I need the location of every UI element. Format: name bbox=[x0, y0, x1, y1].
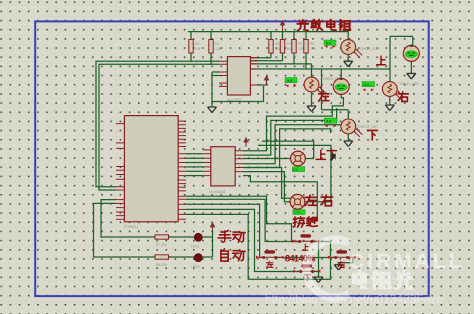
wire MCU to button down left bbox=[186, 209, 300, 271]
svg-text:R6: R6 bbox=[310, 42, 314, 46]
svg-text:TORCH_LDR: TORCH_LDR bbox=[358, 47, 379, 51]
LDR right brightness box bbox=[362, 82, 375, 92]
svg-text:AT89C51: AT89C51 bbox=[124, 225, 138, 229]
label shoudong (manual) bbox=[218, 231, 245, 243]
ground LDR down bbox=[344, 141, 353, 147]
svg-text:R3: R3 bbox=[275, 42, 279, 46]
wire motor B top bbox=[340, 69, 342, 78]
wire to LDR-down top bbox=[322, 69, 349, 119]
wire ADC to R4 bbox=[251, 60, 283, 62]
resistor R2 bbox=[209, 40, 221, 54]
svg-text:R7 220: R7 220 bbox=[156, 243, 167, 247]
svg-text:TORCH_LDR: TORCH_LDR bbox=[398, 82, 419, 86]
ground stem LDR-up bbox=[347, 54, 349, 61]
resistor R4 bbox=[280, 40, 292, 54]
resistor R8 bbox=[155, 255, 169, 267]
LDR up bbox=[341, 40, 379, 58]
svg-text:0.0: 0.0 bbox=[295, 211, 300, 215]
wire LDR-up top bbox=[347, 32, 349, 40]
svg-text:9.0: 9.0 bbox=[326, 119, 331, 123]
button up bbox=[292, 234, 319, 243]
wire MCU left to resistor row 2 bbox=[94, 203, 156, 257]
wire ADC to R3 bbox=[251, 57, 271, 59]
resistor R3 bbox=[269, 40, 281, 54]
sheet border bbox=[35, 21, 429, 296]
ground stem LDR-down bbox=[347, 134, 349, 141]
label up (LDR) bbox=[377, 56, 386, 65]
wire LED1 to VCC node bbox=[202, 236, 212, 238]
svg-text:10k: 10k bbox=[195, 47, 201, 51]
button right bbox=[328, 250, 355, 259]
motor C (up-down stepper) bbox=[291, 151, 306, 172]
wire R8 to LED2 bbox=[169, 256, 195, 258]
bus wire i bbox=[243, 125, 345, 164]
ADC U2 bbox=[219, 57, 258, 102]
driver U3 bbox=[203, 147, 243, 194]
label down (LDR) bbox=[367, 130, 377, 139]
resistor R6 bbox=[304, 40, 316, 54]
wire ADC left lower pins to ground bbox=[212, 72, 219, 107]
label right (LDR) bbox=[398, 92, 408, 102]
svg-text:9.0: 9.0 bbox=[287, 79, 292, 83]
svg-text:R2: R2 bbox=[215, 42, 219, 46]
wire MCU to button right bbox=[186, 196, 298, 241]
button label up bbox=[302, 244, 308, 250]
svg-text:LED2: LED2 bbox=[191, 265, 200, 269]
power arrow ADC bbox=[264, 75, 270, 85]
ground stem LDR-left bbox=[311, 92, 313, 106]
svg-text:R1: R1 bbox=[195, 42, 199, 46]
svg-text:9.0: 9.0 bbox=[326, 41, 331, 45]
wire LDR-right / motor A bbox=[390, 36, 413, 81]
wire button right wrap bbox=[339, 258, 353, 265]
button label down bbox=[304, 275, 310, 281]
watermark logo arc bbox=[306, 240, 349, 298]
motor D (left-right stepper) bbox=[290, 194, 305, 214]
svg-text:ADC0832: ADC0832 bbox=[227, 98, 242, 102]
svg-text:R5: R5 bbox=[298, 42, 302, 46]
svg-text:0.0: 0.0 bbox=[293, 168, 298, 172]
wire driver to motor C left bbox=[243, 158, 291, 160]
label anjian (buttons) bbox=[293, 217, 317, 227]
wire ADC to LDR-right top bbox=[251, 68, 390, 70]
ground LDR up bbox=[344, 61, 353, 66]
LDR left bbox=[304, 77, 342, 95]
resistor R1 bbox=[189, 40, 201, 54]
wire ADC vcc stub bbox=[258, 78, 267, 85]
ground button right bbox=[334, 265, 343, 270]
wire MCU to button up left bbox=[186, 199, 299, 241]
label zidong (auto) bbox=[221, 249, 245, 261]
label guangminR (photoresistor) bbox=[297, 20, 350, 31]
LDR up brightness box bbox=[324, 40, 336, 48]
LDR down brightness box bbox=[324, 118, 337, 127]
wire R7 to LED1 bbox=[169, 236, 195, 238]
button label left bbox=[266, 261, 273, 267]
wire MCU left to resistor row 1 bbox=[101, 200, 155, 237]
button left bbox=[256, 250, 283, 259]
motor B middle bbox=[333, 77, 349, 94]
wire ADC to LDR-left top bbox=[251, 64, 312, 77]
svg-text:9.0: 9.0 bbox=[364, 83, 369, 87]
wire driver to motor D left bbox=[243, 168, 290, 199]
ground LDR left bbox=[307, 106, 316, 112]
svg-text:10k: 10k bbox=[310, 47, 316, 51]
resistor R5 bbox=[292, 40, 304, 54]
motor A top right bbox=[403, 44, 419, 61]
wire VCC vertical at LEDs bbox=[212, 231, 214, 258]
wire button common vertical bbox=[277, 242, 336, 278]
label up-down (motor C) bbox=[316, 150, 336, 159]
svg-text:R8 220: R8 220 bbox=[156, 263, 167, 267]
power arrow top rail bbox=[280, 20, 286, 32]
svg-text:http://blog.csdn.net/u013423Fa: http://blog.csdn.net/u013423Faye bbox=[265, 292, 443, 306]
label left (LDR) bbox=[319, 92, 329, 101]
ground motor A bbox=[407, 73, 416, 79]
button down bbox=[293, 264, 320, 273]
ground stem LDR-right bbox=[389, 96, 391, 105]
ground LDR right bbox=[385, 105, 394, 111]
wire MCU wrap to button up right bbox=[186, 214, 331, 279]
ground stem motor A bbox=[410, 61, 412, 73]
LDR down bbox=[341, 119, 378, 137]
wire loop motor D right side bbox=[243, 176, 317, 220]
wires MCU to driver bbox=[186, 154, 203, 176]
watermark chinese bbox=[354, 272, 412, 289]
resistor top leads bbox=[191, 32, 306, 40]
bus wire j bbox=[243, 129, 331, 168]
bus wire b bbox=[243, 108, 337, 155]
wire motor C right loop bbox=[262, 141, 314, 158]
power arrow driver bbox=[243, 137, 249, 147]
LED D2 bbox=[191, 254, 202, 269]
wire LED2 to VCC node bbox=[202, 256, 212, 258]
MCU U1 AT89C51 bbox=[116, 116, 186, 229]
svg-text:TORCH_LDR: TORCH_LDR bbox=[357, 125, 378, 129]
LDR left brightness box bbox=[285, 78, 297, 88]
power arrow LEDs bbox=[210, 222, 216, 231]
svg-text:10k: 10k bbox=[298, 47, 304, 51]
wire driver to motor D left 2 bbox=[243, 172, 290, 202]
wire pair from top rail to MCU left bbox=[96, 61, 219, 186]
wire MCU to button left bbox=[186, 204, 263, 257]
svg-text:CIRMALL: CIRMALL bbox=[349, 250, 464, 273]
label left-right (motor D) bbox=[305, 195, 332, 206]
ground under ADC bbox=[208, 107, 217, 113]
LDR right bbox=[382, 82, 419, 100]
LED D1 bbox=[191, 233, 202, 248]
wire motor D right loop bbox=[258, 145, 331, 201]
wire ADC ground run bbox=[212, 86, 264, 102]
button label right bbox=[338, 261, 345, 267]
svg-text:10k: 10k bbox=[215, 47, 221, 51]
svg-text:LED1: LED1 bbox=[191, 245, 200, 249]
bus wire a: driver to motor B bottom bbox=[243, 94, 343, 150]
cursor arrow bbox=[330, 154, 336, 162]
ground buttons bbox=[314, 277, 323, 283]
resistor bottom leads bbox=[191, 53, 306, 69]
VCC rail top bbox=[188, 31, 349, 33]
svg-text:R4: R4 bbox=[287, 42, 291, 46]
svg-text:ULN2003A: ULN2003A bbox=[209, 190, 226, 194]
resistor R7 bbox=[155, 235, 169, 247]
